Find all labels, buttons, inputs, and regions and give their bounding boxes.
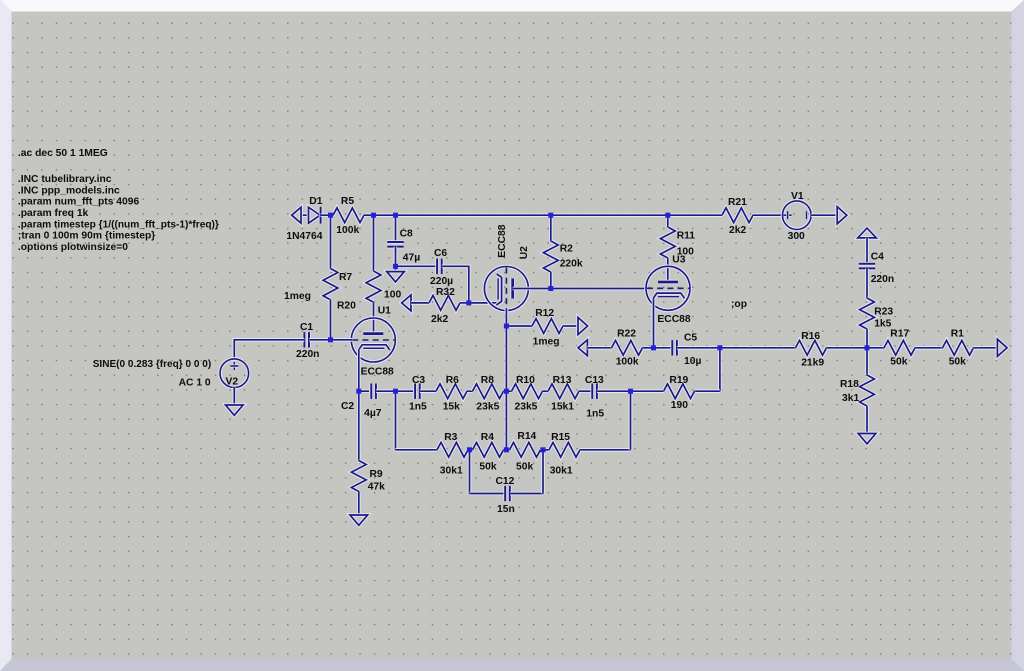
resistor R2	[543, 241, 558, 272]
svg-text:47µ: 47µ	[403, 253, 420, 264]
svg-text:;op: ;op	[731, 299, 747, 310]
wire D1 to R5	[331, 213, 334, 217]
wire R5 to node	[364, 213, 374, 217]
output port after R12	[578, 317, 588, 334]
junction R22/C5/U3 cathode	[651, 345, 656, 350]
svg-text:R7: R7	[339, 272, 352, 283]
svg-text:C8: C8	[400, 229, 413, 240]
wire C6 to cathode node	[442, 266, 469, 303]
svg-text:R32: R32	[436, 287, 455, 298]
wire node to R16	[720, 346, 796, 350]
svg-text:ECC88: ECC88	[657, 314, 690, 325]
wire R22 to cathode node	[643, 346, 654, 350]
wire R1 to output port	[974, 346, 998, 350]
wire C3 to R6	[420, 389, 436, 393]
junction U1 cathode/C2/R9	[356, 389, 361, 394]
input port at R32	[402, 295, 411, 311]
junction R32/C6/U2 cathode	[466, 300, 471, 305]
svg-text:1n5: 1n5	[409, 402, 427, 413]
svg-text:.param num_fft_pts 4096: .param num_fft_pts 4096	[18, 197, 140, 208]
svg-text:ECC88: ECC88	[497, 224, 508, 257]
svg-text:.INC ppp_models.inc: .INC ppp_models.inc	[18, 185, 120, 196]
svg-text:23k5: 23k5	[476, 402, 499, 413]
junction rail/C8	[393, 213, 398, 218]
ground below C8	[387, 272, 405, 282]
wire node down to R19	[718, 348, 722, 391]
wire R3 to R4	[468, 448, 473, 452]
svg-text:.options plotwinsize=0: .options plotwinsize=0	[18, 242, 128, 253]
wire node to R12	[506, 324, 532, 328]
resistor R9	[351, 461, 366, 492]
svg-text:V1: V1	[791, 191, 804, 202]
svg-text:100k: 100k	[336, 225, 359, 236]
svg-text:.param timestep {1/((num_fft_p: .param timestep {1/((num_fft_pts-1)*freq…	[18, 219, 219, 230]
svg-text:ECC88: ECC88	[361, 367, 394, 378]
wire R2 to plate node	[549, 272, 553, 289]
svg-text:R1: R1	[951, 329, 964, 340]
junction R8/R10/center	[504, 389, 509, 394]
svg-text:1n5: 1n5	[586, 409, 604, 420]
svg-text:R6: R6	[446, 375, 459, 386]
wire R14 to R15	[541, 448, 544, 452]
wire V1 to output port	[811, 213, 837, 217]
resistor R12	[532, 319, 563, 334]
wire node to C6	[396, 264, 438, 268]
svg-text:300: 300	[788, 231, 805, 242]
wire R10 to R13	[543, 389, 549, 393]
svg-text:190: 190	[671, 400, 688, 411]
wire node to U3 grid	[551, 287, 647, 291]
resistor R13	[548, 384, 579, 399]
svg-text:AC 1 0: AC 1 0	[179, 378, 211, 389]
capacitor C1	[304, 332, 309, 347]
wire rail to C8	[394, 215, 398, 242]
svg-text:50k: 50k	[516, 461, 533, 472]
svg-text:U1: U1	[378, 306, 391, 317]
svg-text:R11: R11	[677, 230, 696, 241]
svg-text:23k5: 23k5	[515, 402, 538, 413]
wire R12 to output port	[563, 324, 578, 328]
resistor R3	[437, 442, 468, 457]
svg-text:10µ: 10µ	[684, 356, 701, 367]
svg-text:R15: R15	[551, 432, 570, 443]
junction R14/R15/C12	[541, 447, 546, 452]
wire filter row to row 2	[505, 391, 509, 450]
wire cathode node to C2	[359, 389, 369, 393]
svg-text:220n: 220n	[296, 349, 319, 360]
svg-text:15k: 15k	[443, 402, 460, 413]
wire port to R22	[587, 346, 611, 350]
resistor R17	[884, 340, 915, 355]
svg-text:21k9: 21k9	[801, 357, 824, 368]
svg-text:R22: R22	[617, 328, 636, 339]
wire R13 to C13	[579, 389, 592, 393]
wire R4 to center	[504, 448, 510, 452]
resistor R32	[429, 296, 460, 311]
resistor R18	[860, 375, 875, 406]
svg-text:15n: 15n	[497, 504, 515, 515]
wire rail to R2	[549, 215, 553, 241]
capacitor C3	[415, 384, 420, 399]
input port at D1	[292, 207, 301, 223]
svg-text:R18: R18	[840, 379, 859, 390]
junction C5/R16/R19	[717, 345, 722, 350]
wire riser to R3	[396, 448, 438, 452]
wire R15 to right riser	[580, 448, 631, 452]
svg-text:4µ7: 4µ7	[364, 408, 382, 419]
wire C1 to grid node	[309, 338, 328, 342]
junction U2 plate/R2	[548, 286, 553, 291]
wire C13 to node	[597, 389, 630, 393]
resistor R15	[549, 442, 580, 457]
svg-text:C5: C5	[684, 333, 697, 344]
wire C2 to node	[376, 389, 395, 393]
input port at R22	[578, 340, 587, 356]
svg-text:30k1: 30k1	[440, 466, 463, 477]
svg-text:U3: U3	[672, 255, 685, 266]
wire ground to C4	[865, 238, 869, 262]
svg-text:220k: 220k	[560, 258, 583, 269]
svg-text:50k: 50k	[949, 357, 966, 368]
triode U2 ECC88	[484, 267, 528, 311]
wire R32 to node	[460, 301, 469, 305]
wire R8 to center node	[504, 389, 512, 393]
wire R17 to R1	[915, 346, 943, 350]
resistor R19	[664, 384, 695, 399]
svg-text:100k: 100k	[616, 356, 639, 367]
wire rail segment 1	[374, 213, 396, 217]
svg-text:C12: C12	[496, 476, 515, 487]
resistor R21 zigzag	[722, 208, 753, 223]
svg-text:SINE(0 0.283 {freq} 0 0 0): SINE(0 0.283 {freq} 0 0 0)	[93, 359, 212, 370]
output port after R1	[997, 339, 1007, 356]
wire node to C3	[396, 389, 414, 393]
wire U3 cathode down	[652, 298, 656, 348]
voltage source V2	[220, 359, 249, 388]
resistor R1	[943, 340, 974, 355]
svg-text:3k1: 3k1	[842, 393, 859, 404]
wire C8 to node	[394, 247, 398, 267]
svg-text:R16: R16	[801, 331, 820, 342]
svg-text:R12: R12	[535, 308, 554, 319]
resistor R14	[510, 442, 541, 457]
svg-text:R14: R14	[517, 431, 536, 442]
resistor R7	[323, 269, 338, 300]
capacitor C2	[371, 384, 376, 399]
voltage source V1	[783, 201, 812, 230]
resistor R23	[860, 298, 875, 329]
diode D1	[309, 207, 331, 224]
wire R3/R4 node down to C12	[468, 450, 472, 494]
svg-text:R13: R13	[553, 375, 572, 386]
wire node to R17	[867, 346, 884, 350]
svg-text:R5: R5	[341, 196, 354, 207]
wire row2 to row1 right riser	[629, 391, 633, 450]
resistor R11	[660, 227, 675, 258]
svg-text:R4: R4	[481, 432, 494, 443]
junction U2 grid/R12	[504, 324, 509, 329]
wire C4 to R23	[865, 269, 869, 299]
wire V2 to ground	[233, 388, 237, 406]
svg-text:C13: C13	[585, 375, 604, 386]
svg-text:100: 100	[384, 290, 401, 301]
wire to C12	[470, 492, 506, 496]
wire node to R18	[865, 348, 869, 375]
wire R7 to grid node	[329, 300, 333, 340]
ground below V2	[226, 405, 244, 415]
resistor R22	[612, 340, 643, 355]
svg-text:50k: 50k	[479, 461, 496, 472]
resistor R6	[436, 384, 467, 399]
svg-text:R21: R21	[728, 197, 747, 208]
resistor R8	[473, 384, 504, 399]
wire U2 grid down	[505, 310, 509, 327]
wire C5 to node	[677, 346, 720, 350]
svg-text:47k: 47k	[368, 481, 385, 492]
svg-text:;tran 0 100m 90m {timestep}: ;tran 0 100m 90m {timestep}	[18, 231, 155, 242]
wire R6 to R8	[467, 389, 473, 393]
svg-text:2k2: 2k2	[431, 314, 448, 325]
junction D1/R5/R7	[328, 213, 333, 218]
junction R4/R14/center	[504, 447, 509, 452]
resistor R5 zigzag	[333, 208, 364, 223]
capacitor C8	[387, 242, 403, 247]
junction rail/R11/R21	[665, 213, 670, 218]
wire rail to R21	[668, 213, 722, 217]
svg-text:220µ: 220µ	[430, 276, 453, 287]
ground below R18	[858, 434, 876, 444]
capacitor C5	[672, 340, 677, 355]
triode U3 ECC88	[646, 266, 690, 310]
resistor R4	[473, 442, 504, 457]
svg-text:R23: R23	[874, 306, 893, 317]
ground below R9	[350, 515, 368, 525]
svg-text:15k1: 15k1	[551, 402, 574, 413]
wire rail segment 3	[551, 213, 668, 217]
capacitor C4	[859, 264, 875, 269]
svg-text:D1: D1	[309, 196, 322, 207]
wire node to C5	[654, 346, 672, 350]
svg-text:R19: R19	[669, 375, 688, 386]
svg-text:.param freq 1k: .param freq 1k	[18, 208, 89, 219]
svg-text:R20: R20	[337, 301, 356, 312]
wire grid node to filter row	[505, 326, 509, 391]
wire R21 to V1	[753, 213, 782, 217]
resistor R20	[366, 271, 381, 302]
wire R9 to ground	[357, 492, 361, 516]
triode U1 ECC88	[351, 318, 395, 362]
svg-text:50k: 50k	[890, 357, 907, 368]
wire node to R7	[329, 215, 333, 268]
svg-text:1meg: 1meg	[533, 336, 560, 347]
svg-text:30k1: 30k1	[550, 466, 573, 477]
junction C1/R7/U1 grid	[328, 337, 333, 342]
svg-text:1k5: 1k5	[874, 319, 891, 330]
svg-text:R10: R10	[516, 375, 535, 386]
wire port to R32	[411, 301, 429, 305]
wire row1 to row2 left riser	[394, 391, 398, 450]
wire port to D1	[301, 213, 309, 217]
wire R20 to U1 plate	[372, 302, 376, 333]
svg-text:2k2: 2k2	[729, 225, 746, 236]
junction R3/R4/C12	[467, 447, 472, 452]
svg-text:R2: R2	[560, 243, 573, 254]
wire U2 plate to node	[513, 287, 551, 291]
svg-text:R8: R8	[481, 375, 494, 386]
wire rail to R11	[666, 215, 670, 227]
output port B+ after V1	[837, 207, 847, 224]
junction rail/R20	[371, 213, 376, 218]
svg-text:220n: 220n	[871, 274, 894, 285]
svg-text:C3: C3	[412, 375, 425, 386]
wire node to R9	[357, 391, 361, 460]
capacitor C12	[505, 486, 510, 501]
wire R16 to node	[827, 346, 868, 350]
svg-text:C6: C6	[434, 248, 447, 259]
junction R16/R23/R17/R18	[865, 345, 870, 350]
wire V2 to C1	[234, 340, 304, 359]
wire node to R19 left	[631, 389, 664, 393]
wire U1 cathode down	[357, 350, 361, 391]
svg-text:1meg: 1meg	[284, 291, 311, 302]
capacitor C13	[592, 384, 597, 399]
svg-text:V2: V2	[226, 376, 239, 387]
svg-text:.ac dec 50 1 1MEG: .ac dec 50 1 1MEG	[18, 148, 108, 159]
svg-text:.INC tubelibrary.inc: .INC tubelibrary.inc	[18, 174, 112, 185]
wire node to R15	[543, 448, 549, 452]
wire C12 up to R14/R15 node	[541, 450, 545, 494]
junction C8/C6/ground	[393, 264, 398, 269]
wire grid node to U1	[331, 338, 353, 342]
svg-text:U2: U2	[519, 246, 530, 259]
junction C2/C3/row2	[393, 389, 398, 394]
wire R19 to riser	[695, 389, 720, 393]
svg-text:R17: R17	[890, 329, 909, 340]
junction rail/R2	[548, 213, 553, 218]
ground (rotated) above C4	[858, 228, 877, 238]
svg-text:C1: C1	[300, 322, 313, 333]
svg-text:R9: R9	[370, 469, 383, 480]
wire R23 to node	[865, 329, 869, 348]
wire R11 to U3 plate	[666, 258, 670, 282]
resistor R16	[796, 340, 827, 355]
wire node to U2 cathode	[469, 301, 497, 305]
capacitor C6	[437, 259, 442, 274]
wire rail segment 2	[396, 213, 551, 217]
junction C13/R19/row2	[628, 389, 633, 394]
wire R18 to ground	[865, 406, 869, 434]
svg-text:1N4764: 1N4764	[286, 231, 322, 242]
svg-text:R3: R3	[444, 432, 457, 443]
svg-text:C2: C2	[341, 401, 354, 412]
wire rail to R20	[372, 215, 376, 271]
wire C12 right	[510, 492, 543, 496]
svg-text:C4: C4	[871, 252, 884, 263]
resistor R10	[512, 384, 543, 399]
wire node to ground stub	[394, 266, 398, 271]
